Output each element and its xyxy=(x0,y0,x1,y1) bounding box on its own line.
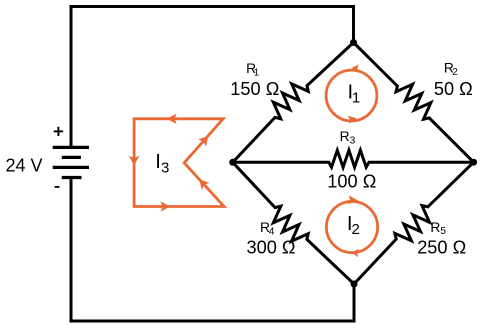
mesh current loop I1 (counterclockwise circle) xyxy=(326,70,377,121)
svg-text:I3: I3 xyxy=(155,151,169,176)
svg-text:R1: R1 xyxy=(246,61,260,78)
resistor R1 150 ohm (left-top branch) xyxy=(233,43,354,163)
resistor R4 300 ohm (left-bottom branch) xyxy=(233,162,354,284)
node right junction xyxy=(470,159,477,166)
resistor R2 50 ohm (top-right branch) xyxy=(354,43,474,163)
I1 arrow top (left) xyxy=(352,64,359,72)
svg-text:R2: R2 xyxy=(444,60,458,77)
svg-text:R5: R5 xyxy=(430,220,446,237)
node top junction xyxy=(350,39,357,46)
I3 arrow notch upper (up-right) xyxy=(198,136,208,147)
mesh current loop I2 (clockwise circle) xyxy=(326,201,377,252)
I3 arrow bottom (right) xyxy=(161,201,171,212)
resistor R3 100 ohm (middle branch) xyxy=(233,150,474,167)
I3 arrow left (down) xyxy=(129,156,140,166)
wire bottom rail: battery - to bottom node xyxy=(71,178,354,322)
mesh current loop I3 (rect with notch, counterclockwise) xyxy=(134,119,224,207)
svg-text:24 V: 24 V xyxy=(6,155,43,175)
svg-text:I1: I1 xyxy=(348,81,361,106)
svg-text:250 Ω: 250 Ω xyxy=(417,238,466,258)
svg-text:I2: I2 xyxy=(347,213,360,238)
node bottom junction xyxy=(351,281,358,288)
battery + sign xyxy=(54,130,64,132)
I2 arrow bottom (left) xyxy=(352,249,359,257)
svg-text:300 Ω: 300 Ω xyxy=(247,238,296,258)
I3 arrow notch lower (up-left) xyxy=(199,179,209,190)
svg-text:R3: R3 xyxy=(340,129,356,146)
battery - sign xyxy=(55,186,60,188)
wire top rail: battery + to top node xyxy=(71,7,354,148)
svg-text:150 Ω: 150 Ω xyxy=(230,79,279,99)
I2 arrow top (right) xyxy=(348,195,358,204)
I3 arrow top (left) xyxy=(167,114,177,125)
node left junction xyxy=(229,159,236,166)
svg-text:100 Ω: 100 Ω xyxy=(327,171,376,191)
svg-text:50 Ω: 50 Ω xyxy=(434,79,473,99)
resistor R5 250 ohm (bottom-right branch) xyxy=(354,162,474,284)
I1 arrow bottom (right) xyxy=(348,116,357,124)
battery 24V plates xyxy=(53,147,89,177)
